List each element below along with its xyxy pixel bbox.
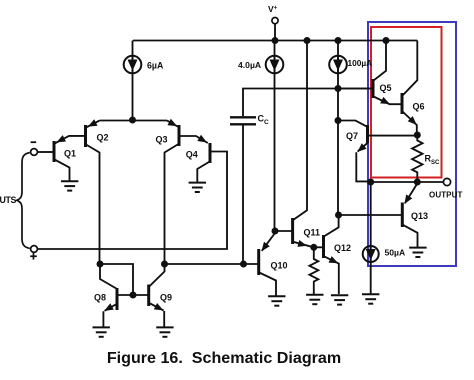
transistor Q2 emitter [86,121,100,128]
svg-text:Q7: Q7 [346,131,358,141]
svg-text:4.0µA: 4.0µA [238,60,261,70]
transistor Q1 emitter arrow [56,135,66,142]
transistor Q11 emitter [293,242,314,248]
transistor Q3 emitter [167,121,179,127]
transistor Q7 emitter arrow [357,143,366,152]
transistor Q8 emitter arrow [104,303,114,311]
node rail-V+ [272,37,279,44]
transistor Q3 emitter arrow [168,119,178,126]
ground Q4 [189,182,206,184]
node input-pair emitters [129,117,136,124]
wire Cc bottom to Q10 base [242,126,244,265]
svg-text:Q12: Q12 [334,243,351,253]
transistor Q6 emitter [403,112,417,136]
transistor Q1 base bar [53,141,56,162]
node rail-Q5 [383,37,390,44]
transistor Q5 emitter arrow [380,97,390,104]
transistor Q1 collector [55,160,70,181]
transistor Q13 base bar [401,203,404,228]
ground Q8 [93,326,110,328]
current source I1 6uA [124,56,142,74]
ground Q1 [61,180,78,182]
plus sign [30,255,37,257]
current source I3 100uA [329,56,347,74]
node mirror bases [130,292,137,299]
transistor Q6 emitter arrow [408,116,417,125]
node Cc-Q10 base [240,261,247,268]
transistor Q5 emitter [374,97,402,105]
transistor Q13 collector [403,225,418,247]
wire 50uA column [370,182,372,246]
transistor Q9 emitter [149,303,164,327]
svg-text:Q13: Q13 [411,211,428,221]
svg-text:Q6: Q6 [413,102,425,112]
transistor Q11 emitter arrow [297,240,307,247]
ground Q13 [409,247,426,249]
svg-text:Q4: Q4 [186,149,198,159]
current source I4 50uA [363,246,379,262]
transistor Q4 emitter arrow [197,135,207,143]
transistor Q6 collector [403,41,418,96]
wire Q12 base [314,246,322,248]
transistor Q4 collector [197,161,210,182]
blue highlight box (output stage) [368,22,456,266]
wire IN+ to Q4 base [37,152,227,250]
transistor Q3 collector [165,144,179,264]
node 50uA tap [367,179,374,186]
INPUTS brace [17,153,30,249]
wire 6uA riser [132,41,134,58]
node Q6 emitter / Rsc top [414,132,421,139]
transistor Q1 emitter to Q2 base [55,136,85,144]
transistor Q10 emitter [262,233,275,251]
transistor Q8 collector [100,266,116,289]
terminal OUTPUT [443,178,450,185]
ground 50uA [362,293,379,295]
wire emitter bus y120 [100,120,168,122]
transistor Q2 collector [86,145,100,265]
transistor Q5 base bar [372,79,375,98]
svg-text:100µA: 100µA [348,58,373,68]
node Q2-Q8 collectors [97,261,104,268]
wire Cc top to Q5 base [243,89,372,117]
V+ terminal [272,18,278,24]
transistor Q4 base bar [209,143,212,163]
node 4uA-Q10-Q11 [272,228,279,235]
transistor Q8 emitter [103,304,117,327]
transistor Q13 emitter [405,184,417,204]
node output junction [414,179,421,186]
transistor Q10 collector [259,273,276,296]
svg-text:50µA: 50µA [385,248,406,258]
node Q12 collector net [335,212,342,219]
svg-text:Q1: Q1 [64,149,76,159]
svg-text:Q2: Q2 [97,132,109,142]
ground Q9 [156,326,173,328]
capacitor Cc [230,116,256,118]
transistor Q3 base to Q4 emitter [179,136,208,143]
node Q3-Q9 collectors [161,261,168,268]
transistor Q6 base bar [401,93,404,114]
red highlight box (darlington + Rsc) [371,27,442,178]
transistor Q8 base bar [116,288,119,310]
wire Q5 base [338,88,372,90]
transistor Q12 emitter arrow [329,256,339,263]
svg-text:UTS: UTS [0,195,17,205]
current source I2 4uA [266,56,284,74]
terminal IN+ [31,246,38,253]
terminal IN- [31,149,38,156]
transistor Q12 emitter [324,256,339,294]
node rail-Q11 [304,37,311,44]
transistor Q7 base bar [366,125,369,143]
transistor Q10 base bar [257,249,260,275]
transistor Q12 collector [325,215,339,236]
resistor Rsc [412,135,422,182]
svg-text:Q8: Q8 [94,292,106,302]
wire Q11 base [275,230,292,232]
node Q5 base net [335,85,342,92]
wire Q13 base [339,214,402,216]
svg-text:6µA: 6µA [147,60,164,70]
transistor Q13 emitter arrow [404,195,412,205]
transistor Q9 emitter arrow [154,303,164,310]
transistor Q11 base bar [291,218,294,244]
wire output line [371,181,444,183]
svg-text:Figure 16. Schematic Diagram: Figure 16. Schematic Diagram [107,349,341,367]
ground R1 [306,294,323,296]
wire 4uA column [274,41,276,57]
transistor Q3 base bar [178,125,181,146]
wire IN- to Q1 base [37,151,53,153]
minus sign [31,141,37,143]
svg-text:Q3: Q3 [156,135,168,145]
ground Q10 [268,295,285,297]
transistor Q2 base bar [84,125,87,147]
transistor Q12 base bar [322,235,325,258]
wire 100uA column [337,41,339,57]
node Q11-R-Q12 [310,244,317,251]
node Q7 base net [335,117,342,124]
transistor Q7 collector [369,135,418,137]
wire mirror out to Q10 base [165,263,259,265]
transistor Q9 collector [149,266,164,287]
svg-text:Q5: Q5 [380,83,392,93]
wire mirror base tie [100,264,133,295]
svg-text:Q9: Q9 [160,292,172,302]
transistor Q7 emitter [356,143,370,182]
wire Q7 base [338,121,366,127]
transistor Q11 collector [293,41,307,221]
transistor Q2 emitter arrow [88,119,98,126]
transistor Q9 base bar [147,285,150,307]
node rail-100uA [335,37,342,44]
resistor R1 [309,247,318,294]
wire top V+ rail [133,40,417,42]
wire Q8-Q9 base line [118,294,149,296]
svg-text:Q10: Q10 [271,260,288,270]
transistor Q10 emitter arrow [262,242,270,251]
svg-text:Q11: Q11 [304,228,321,238]
transistor Q5 collector [374,41,387,81]
svg-text:OUTPUT: OUTPUT [429,190,463,199]
ground Q12 [331,294,348,296]
